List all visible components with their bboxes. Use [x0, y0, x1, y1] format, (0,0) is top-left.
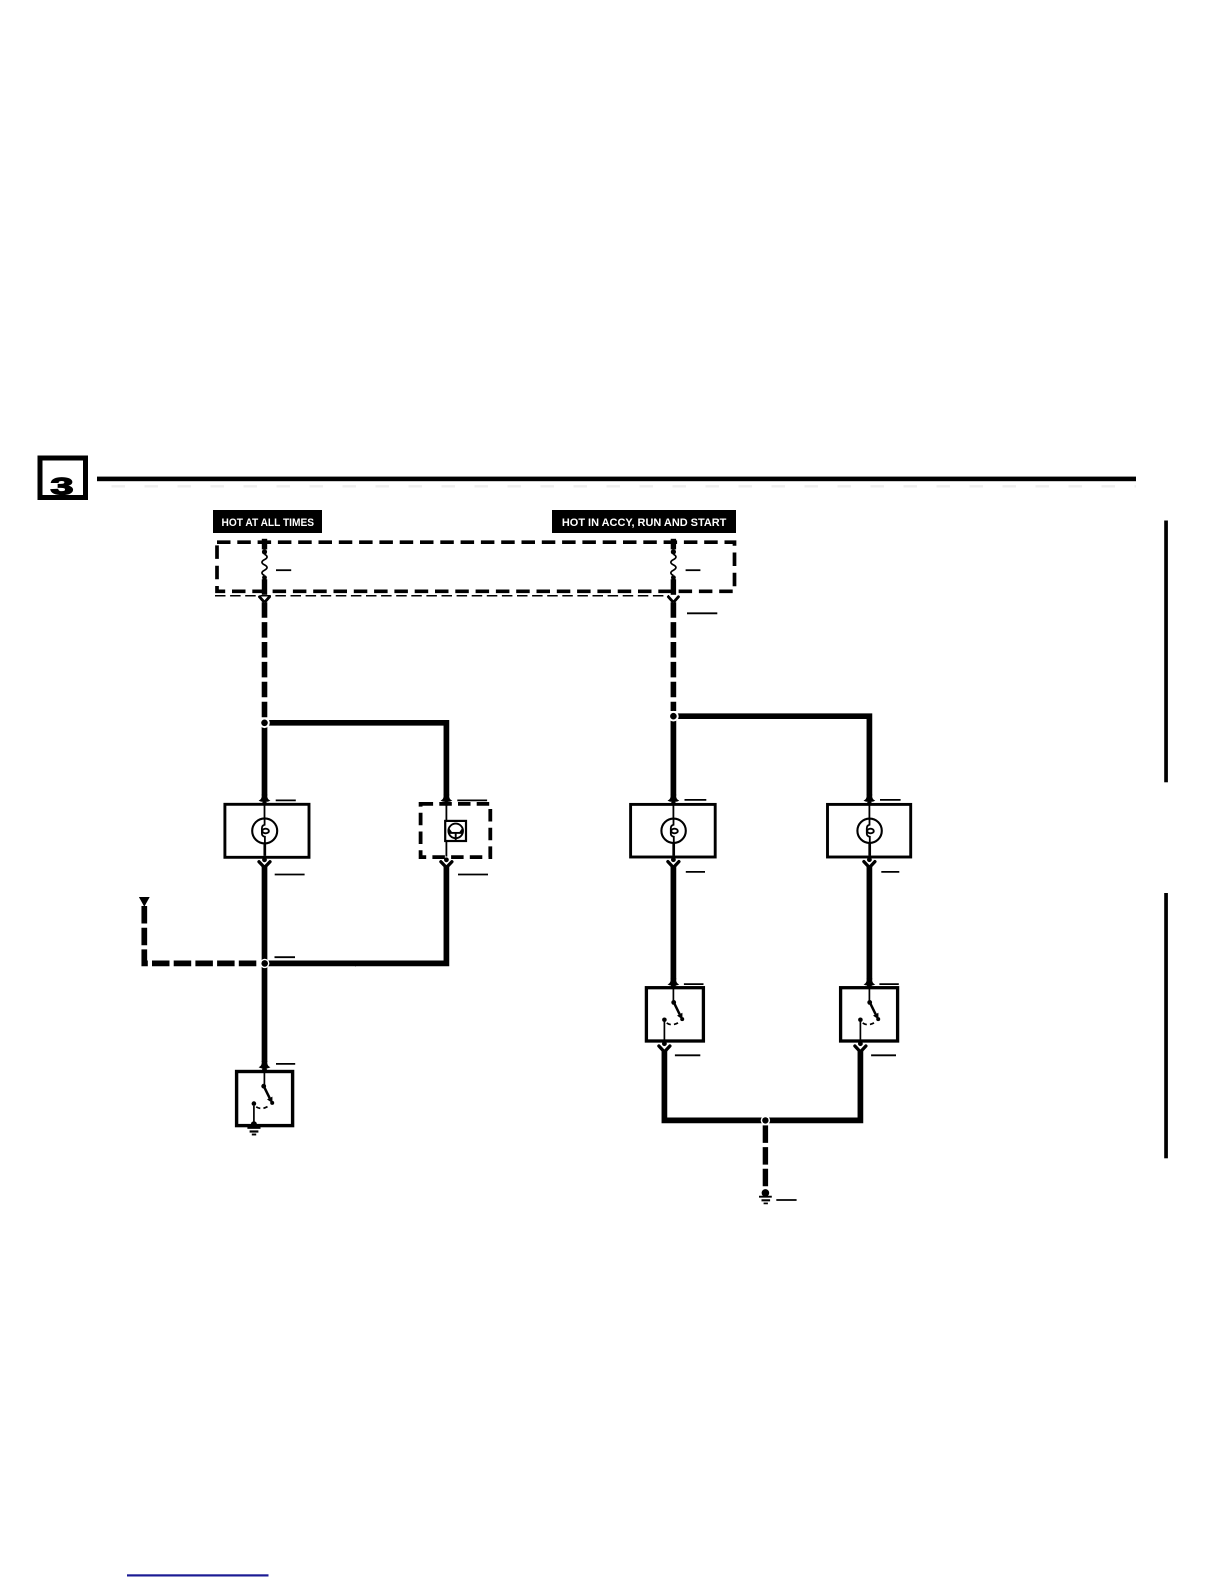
pin label above switch S2	[879, 983, 898, 985]
connector fork below lamp 2	[864, 862, 875, 867]
connector arrow into clock box	[441, 794, 453, 806]
connector fork below cigar lighter	[259, 862, 270, 867]
connector arrow into lamp 1	[668, 794, 680, 806]
wire label below switch S1	[675, 1054, 700, 1056]
node A (junction)	[259, 718, 270, 729]
fuse F1	[262, 539, 267, 595]
wire: fuse F2 to node C (dashed)	[671, 602, 677, 711]
pin dot below cigar lighter	[262, 857, 267, 862]
pin dot below lamp 2	[867, 857, 872, 862]
pin label above clock box	[457, 799, 487, 801]
connector arrow into cigar lighter box	[259, 794, 271, 806]
fuse F2 amp label line	[686, 569, 701, 571]
switch box: lighting switch (grounding)	[237, 1072, 293, 1126]
wire label below fuse F2	[687, 612, 717, 614]
pin label above switch S1	[684, 983, 704, 985]
connector arrow into switch S1	[668, 978, 680, 988]
ground G2 label line	[776, 1199, 796, 1201]
wire label below lamp 1	[686, 871, 705, 873]
pin label above lamp 2	[880, 799, 901, 801]
node C (junction)	[668, 711, 679, 722]
svg-text:HOT AT ALL TIMES: HOT AT ALL TIMES	[222, 517, 315, 529]
ground G2 (right)	[759, 1189, 772, 1203]
pin dot below switch S2	[858, 1041, 863, 1046]
connector strip (thin dashed line under fuse box)	[215, 595, 669, 597]
wire: clock down to node B level	[355, 866, 446, 963]
switch box S2	[841, 988, 898, 1041]
wire: node C branch to lamp 2 (right then down)	[673, 716, 869, 795]
fuse F1 amp label line	[276, 569, 291, 571]
pin dot below clock	[444, 857, 449, 862]
connector fork below fuse F2	[668, 597, 678, 601]
wire label below clock	[458, 874, 488, 876]
component box: clock (dashed)	[421, 804, 491, 857]
wire: lamp 1 to switch S1	[671, 866, 677, 979]
svg-text:3: 3	[51, 473, 74, 500]
faint echo dashes under header rule	[112, 485, 1137, 487]
connector fork below fuse F1	[260, 597, 270, 601]
side bar 1	[1164, 521, 1168, 783]
pin label above lamp 1	[685, 799, 707, 801]
pin label above lighting switch	[276, 1063, 295, 1065]
fuse F2	[671, 539, 676, 595]
page tab box "3"	[40, 458, 86, 500]
switch box S1	[646, 988, 703, 1041]
fuse box (dashed outline)	[217, 542, 735, 591]
side bar 2	[1164, 893, 1168, 1158]
wire label below switch S2	[871, 1054, 896, 1056]
wire label below lamp 2	[881, 871, 899, 873]
off-page arrow (dashed feed, left)	[139, 897, 150, 907]
node D (junction)	[761, 1116, 770, 1125]
component box: cigar lighter (solid)	[225, 804, 309, 857]
connector fork below clock	[441, 862, 452, 867]
pin dot below switch S1	[662, 1041, 667, 1046]
connector arrow into switch S2	[864, 978, 876, 988]
wire: node A down to cigar lighter	[262, 723, 268, 796]
ground G1 (under lighting switch)	[247, 1121, 260, 1134]
svg-text:HOT IN ACCY, RUN AND START: HOT IN ACCY, RUN AND START	[562, 517, 727, 529]
bus label: HOT AT ALL TIMES	[213, 510, 322, 533]
node B (junction)	[260, 959, 269, 968]
wire: node C down to lamp 1	[671, 716, 677, 795]
bus label: HOT IN ACCY, RUN AND START	[552, 510, 736, 533]
wire label below cigar lighter	[275, 874, 305, 876]
node B label line	[275, 956, 296, 958]
connector fork below lamp 1	[668, 862, 679, 867]
pin label above cigar lighter box	[276, 799, 296, 801]
component box: lamp 1	[631, 804, 716, 857]
wire: node A branch to clock box (right then down)	[265, 723, 447, 796]
wire: cigar lighter to node B	[262, 866, 268, 1062]
wire: fuse F1 to node A (dashed)	[262, 602, 268, 717]
wire: S1 and S2 to ground node D	[664, 1051, 860, 1121]
connector arrow into lamp 2	[864, 794, 876, 806]
pin dot below lamp 1	[671, 857, 676, 862]
wire: node B to clock branch (horizontal)	[265, 961, 357, 967]
component box: lamp 2	[828, 804, 911, 857]
header rule	[97, 477, 1136, 482]
footer link line (blue)	[127, 1574, 269, 1576]
wire: node D to ground (dashed)	[763, 1125, 768, 1188]
wire: dashed feed to node B	[144, 906, 260, 963]
connector fork below switch S2	[855, 1046, 866, 1051]
connector arrow into lighting switch	[259, 1061, 271, 1072]
connector fork below switch S1	[659, 1046, 670, 1051]
wire: lamp 2 to switch S2	[867, 866, 873, 979]
